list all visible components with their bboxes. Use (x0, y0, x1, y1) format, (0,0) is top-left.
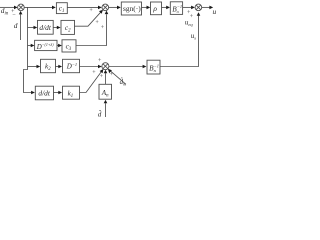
svg-text:+: + (98, 58, 102, 64)
block Bn^-1 (147, 60, 160, 74)
block An (99, 84, 112, 99)
wire ddt to k1 (54, 92, 59, 94)
wire sum1 output to c1 (24, 6, 52, 8)
wire error bus from sum1 output down (24, 7, 32, 92)
svg-text:d̂: d̂ (98, 108, 102, 118)
svg-text:u: u (213, 7, 217, 16)
block c3 (62, 40, 76, 52)
svg-text:+: + (100, 74, 104, 80)
wire bus stub to D fractional (28, 45, 31, 47)
wire An up to sum3 (105, 73, 107, 84)
wire Bn output riser to sum4 (160, 14, 199, 66)
block D fractional (35, 40, 57, 51)
svg-text:sgn(·): sgn(·) (123, 4, 141, 13)
wire c3 to sum2 vertical (76, 14, 107, 45)
summing junction sum2 (102, 4, 109, 11)
block D inverse (63, 59, 80, 72)
block k2 (41, 59, 56, 72)
wire sum2 to sgn block (109, 6, 118, 8)
wire d hat m diagonal to sum3 (110, 71, 126, 85)
block ddt row2 (38, 20, 54, 34)
block ddt row4 (35, 86, 53, 100)
wire Bo to sum4 (183, 6, 192, 8)
block Bo^-1 (170, 2, 182, 15)
block k1 (63, 86, 80, 99)
block rho (151, 2, 162, 15)
wire d_in to sum1 (0, 6, 14, 8)
wire d hat into An (105, 103, 107, 117)
wire sum3 to Bn inverse (109, 66, 143, 68)
svg-text:+: + (92, 70, 96, 76)
wire ddt to c2 (53, 27, 57, 29)
block sgn (121, 2, 141, 15)
wire sgn to rho (142, 6, 147, 8)
wire c2 to sum2 diagonal (75, 12, 101, 26)
svg-text:d/dt: d/dt (38, 89, 50, 98)
wire D inverse to sum3 (80, 66, 99, 68)
wire d input up into sum1 (20, 14, 22, 40)
wire bus stub to k2 (28, 66, 37, 68)
svg-text:+: + (95, 20, 99, 26)
wire c1 to sum2 (67, 6, 98, 8)
summing junction sum3 (102, 63, 109, 70)
svg-text:ρ: ρ (152, 4, 157, 13)
summing junction sum1 (18, 4, 25, 11)
svg-text:d: d (14, 21, 18, 30)
wire sum4 output u (202, 6, 210, 8)
wire k1 diagonal to sum3 (80, 72, 102, 93)
svg-text:+: + (89, 8, 93, 14)
wire bus stub to ddt row2 (28, 27, 34, 29)
block c1 (56, 3, 67, 14)
wire D fractional to c3 (57, 45, 58, 47)
block c2 (61, 20, 75, 34)
svg-text:d/dt: d/dt (39, 23, 51, 32)
svg-text:+: + (101, 25, 105, 31)
wire k2 to D inverse (56, 66, 59, 68)
summing junction sum4 (195, 4, 202, 11)
svg-text:−: − (12, 13, 16, 19)
wire rho to Bo inverse (162, 6, 167, 8)
svg-text:us: us (191, 32, 197, 41)
svg-text:+: + (190, 14, 194, 20)
